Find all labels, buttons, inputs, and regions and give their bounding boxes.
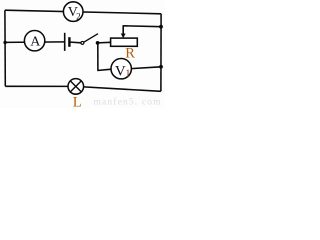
wire: top side (left corner to right corner, through V2) [5,10,161,14]
voltmeter V1: circle [111,58,131,78]
ammeter A: circle [24,31,44,51]
node: switch fixed contact junction dot [96,41,100,45]
wire: switch contact to rheostat left terminal [98,41,111,44]
svg-text:R: R [125,46,135,62]
node: junction dot on left vertical (middle branch) [3,41,6,44]
wire: bottom side right of lamp [75,86,161,91]
rheostat R: slider arrow stem [122,25,124,34]
lamp L: circle [68,79,84,95]
wire: rheostat slider top wire to right-side node [123,25,161,28]
node: right side lower junction dot (V1 wire) [159,65,163,69]
battery: short thick plate [68,37,70,47]
svg-text:1: 1 [125,69,130,80]
switch S: open lever arm [84,34,98,43]
svg-text:manfen5. com: manfen5. com [94,97,162,108]
lamp L: cross stroke 1 [70,81,81,92]
rheostat R: slider arrowhead [121,34,126,39]
svg-text:A: A [30,34,41,49]
wire: branch down from switch contact node toward V1 [97,43,99,71]
wire: left vertical side [4,10,6,86]
svg-text:2: 2 [76,11,81,21]
wire: horizontal into V1 left terminal [97,69,111,70]
node: right side upper junction dot (slider wire) [159,25,163,29]
voltmeter V2: circle [63,2,83,22]
switch S: pivot circle [81,41,84,44]
rheostat R: resistor body [111,38,138,46]
svg-text:V: V [115,63,126,79]
wire: bottom side left of lamp [5,85,75,87]
wire: right vertical side [160,14,162,92]
wire: battery to switch pivot [70,41,81,44]
lamp L: cross stroke 2 [70,81,81,92]
wire: middle branch from left node through ammeter to battery [5,41,64,44]
battery: long thin plate [64,33,66,51]
svg-text:L: L [73,95,82,108]
wire: V1 right terminal to right-side node [131,67,161,69]
